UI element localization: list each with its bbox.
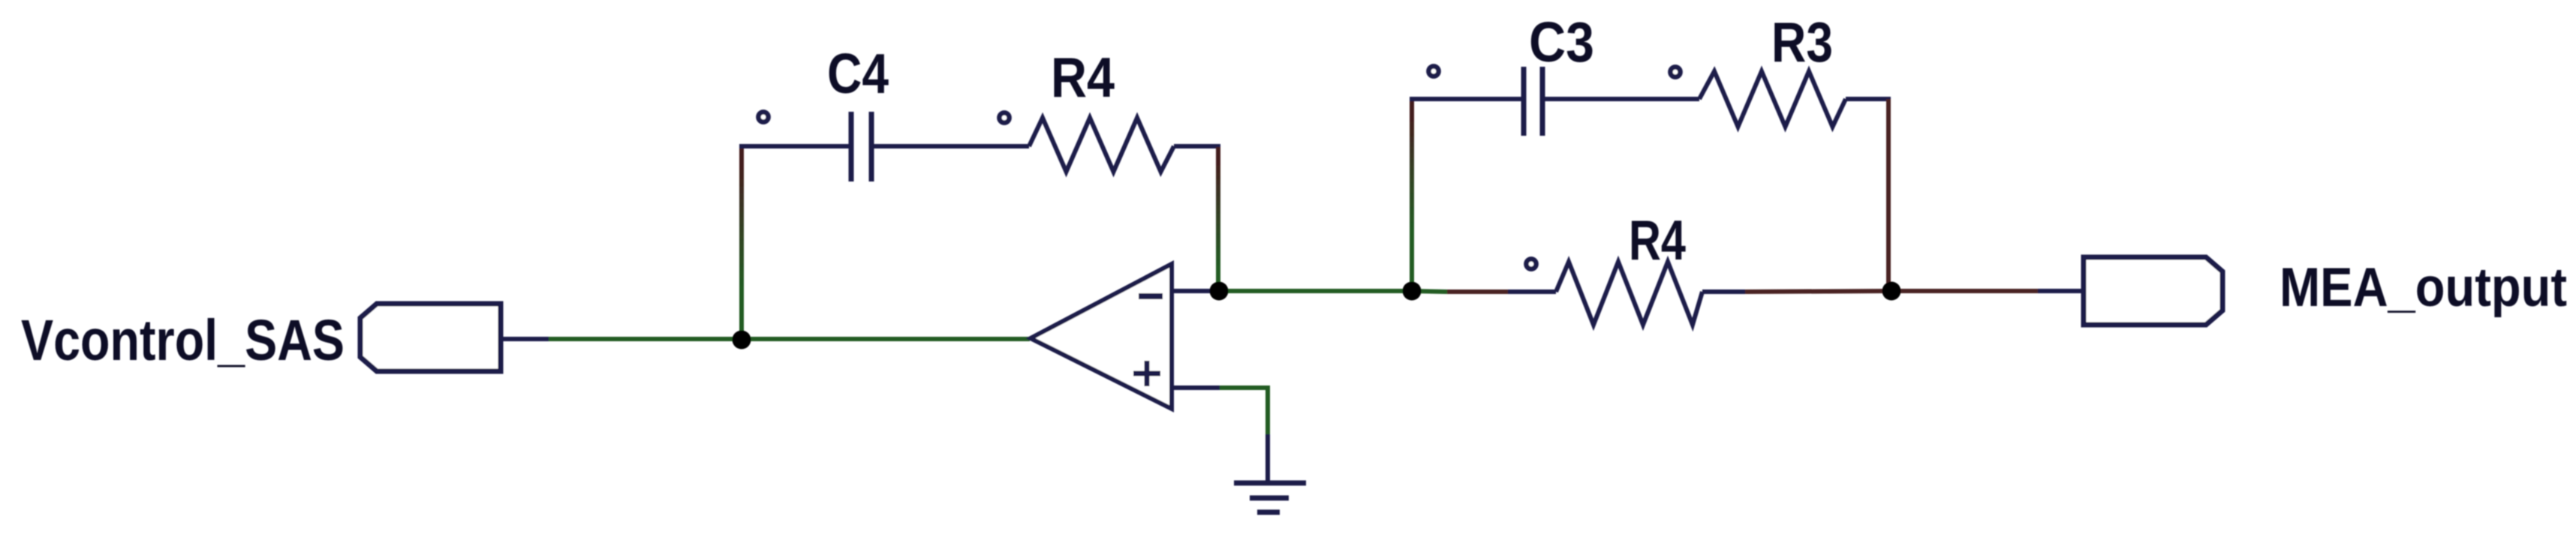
svg-text:C3: C3 (1529, 10, 1594, 73)
svg-text:MEA_output: MEA_output (2280, 257, 2567, 318)
svg-text:C4: C4 (827, 42, 889, 105)
svg-text:R3: R3 (1771, 10, 1833, 73)
svg-text:R4: R4 (1051, 46, 1115, 109)
svg-text:R4: R4 (1629, 208, 1686, 271)
svg-text:Vcontrol_SAS: Vcontrol_SAS (21, 308, 345, 373)
